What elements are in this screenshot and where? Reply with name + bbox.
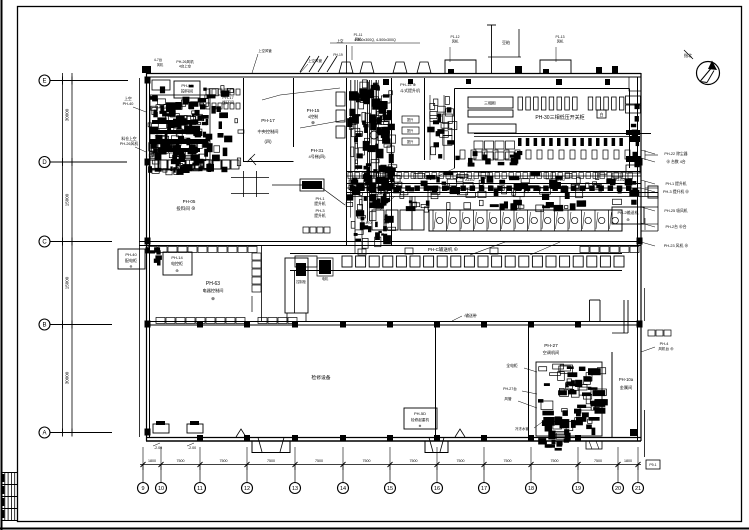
PH-63 cabinet strip [252, 253, 261, 260]
dense strip left wall [346, 78, 348, 245]
roof small rect 2 [612, 66, 618, 73]
strip roof stub line [346, 45, 348, 73]
C wall corner blocks [150, 250, 156, 253]
PH-30 small box [597, 110, 606, 118]
svg-text:检修设备: 检修设备 [311, 374, 330, 381]
top-left comb row 1 [206, 89, 210, 95]
wall x528 vertical [528, 325, 530, 437]
PH-27 below-wall cluster [552, 440, 556, 444]
room wall x243 [243, 78, 245, 162]
svg-text:7500: 7500 [551, 459, 559, 463]
svg-text:9: 9 [141, 486, 144, 492]
svg-text:4台上空: 4台上空 [179, 64, 192, 69]
svg-text:7500: 7500 [267, 459, 275, 463]
dense strip right wall [391, 78, 393, 245]
band connector lines [409, 196, 411, 210]
PH-30 panel comb row 1 [518, 97, 523, 110]
svg-text:7500: 7500 [220, 459, 228, 463]
svg-text:PH-27台: PH-27台 [503, 386, 517, 391]
gallery extra blocks [494, 189, 499, 196]
svg-text:检修起重机: 检修起重机 [411, 417, 429, 422]
room PH-17 bottom wall [244, 161, 294, 163]
svg-text:16: 16 [434, 486, 440, 492]
svg-text:-2.00: -2.00 [188, 446, 196, 450]
svg-text:7500: 7500 [177, 459, 185, 463]
lower-left black band [150, 139, 208, 144]
svg-text:12: 12 [244, 486, 250, 492]
PH-16 small boxed labels [402, 116, 419, 123]
corner stair block [630, 429, 637, 436]
svg-text:电器控制间: 电器控制间 [203, 287, 224, 294]
left dimension line 1 [62, 73, 64, 433]
top-left extra black [152, 120, 198, 124]
platform down leg [294, 271, 296, 313]
bucket elevator tower cluster [374, 83, 378, 87]
svg-text:30000: 30000 [65, 108, 70, 121]
svg-text:15: 15 [387, 486, 393, 492]
PH-30 cabinet box 3 [468, 124, 516, 133]
svg-text:电机: 电机 [322, 276, 329, 281]
platform legs to B wall [286, 313, 288, 322]
svg-text:19: 19 [575, 486, 581, 492]
left dimension line 2 [71, 73, 73, 433]
left column grid line [139, 78, 141, 437]
drawing sheet border [1, 0, 3, 530]
svg-text:15000: 15000 [65, 276, 70, 289]
svg-text:斗式提升机: 斗式提升机 [400, 87, 420, 93]
svg-text:C: C [42, 240, 47, 246]
silo drop line [491, 25, 493, 73]
wall x612 vertical [611, 352, 613, 437]
mezzanine tick row [511, 158, 519, 164]
svg-text:P9-1: P9-1 [649, 463, 656, 467]
room wall x424 [424, 78, 426, 160]
door mark left [236, 429, 246, 437]
room PH-30 outline [454, 89, 456, 169]
right short wall seg [644, 288, 646, 321]
wall C (horizontal) [139, 241, 641, 243]
building left wall [146, 73, 148, 441]
leader net 3 [430, 168, 455, 180]
svg-text:4控制: 4控制 [308, 113, 318, 119]
svg-text:PH-22 除尘器: PH-22 除尘器 [664, 151, 687, 156]
svg-text:冷冻水管: 冷冻水管 [515, 426, 529, 431]
PH-16 inner lines [429, 95, 431, 160]
feeder block [302, 181, 322, 189]
svg-text:⊕: ⊕ [175, 268, 178, 273]
svg-text:⊕: ⊕ [418, 424, 421, 428]
svg-text:料仓上空: 料仓上空 [121, 136, 136, 141]
PH-63 boxed label [163, 252, 192, 275]
svg-text:A⁠1302: A⁠1302 [615, 178, 625, 182]
room wall x293 [293, 78, 295, 147]
left dimension text 30000 [65, 108, 70, 121]
svg-text:PH-31: PH-31 [311, 148, 324, 153]
lower-left row extension [150, 160, 158, 169]
svg-text:P1-12: P1-12 [450, 35, 459, 39]
PH-12 side boxes [336, 92, 345, 106]
svg-text:P1-13: P1-13 [555, 35, 564, 39]
svg-text:PH-2台 ⊕台: PH-2台 ⊕台 [665, 224, 686, 229]
gallery comb row regular [348, 173, 353, 179]
svg-text:PH-27: PH-27 [544, 343, 558, 349]
right callout bracket 1 [645, 154, 658, 156]
svg-text:PH-3: PH-3 [315, 208, 325, 213]
svg-text:1800: 1800 [624, 459, 632, 463]
svg-text:PH-63: PH-63 [206, 281, 220, 287]
diagonal hatch cluster [300, 56, 310, 72]
svg-text:PH-26风机: PH-26风机 [176, 59, 194, 64]
svg-text:上空: 上空 [337, 38, 344, 43]
svg-text:风机: 风机 [355, 37, 362, 42]
grid line A with bubble [50, 432, 112, 434]
platform control box [296, 263, 306, 276]
conveyor PH-C row [290, 253, 622, 255]
svg-text:17: 17 [481, 486, 487, 492]
right wall inner blocks [633, 152, 638, 159]
svg-text:金属间: 金属间 [620, 384, 633, 391]
roof hood 1 [445, 60, 476, 73]
svg-text:4号梯(四): 4号梯(四) [309, 153, 327, 159]
right wall black rows [626, 130, 640, 135]
door vestibule 2 [425, 441, 448, 453]
PH-05 cross marks [243, 171, 245, 197]
left dimension text 15000 [65, 276, 70, 289]
lower-left block rows [150, 160, 158, 169]
PH-30 panel comb row 2 [518, 138, 522, 146]
svg-text:提升机: 提升机 [314, 201, 326, 206]
svg-text:⊕: ⊕ [211, 296, 215, 301]
roof small rect 1 [515, 66, 522, 73]
svg-text:PH-5D: PH-5D [414, 411, 426, 416]
feed line to elevator [272, 184, 302, 186]
svg-text:风机: 风机 [557, 39, 564, 44]
svg-text:PH-26风机: PH-26风机 [120, 141, 139, 146]
bottom grid bubbles [142, 465, 144, 483]
left dimension text 15000 [65, 193, 70, 206]
PH-30 lower tick row [460, 150, 465, 159]
svg-text:⊕: ⊕ [626, 217, 629, 222]
svg-text:提升: 提升 [407, 117, 414, 122]
storage room pit 2 [187, 424, 203, 433]
svg-text:上空风管: 上空风管 [308, 58, 322, 63]
right callout bracket 3 [645, 223, 658, 225]
mid band extra row [424, 207, 428, 212]
PH-30 cabinet box 2 [468, 110, 513, 117]
top-left comb row 2 [206, 103, 210, 109]
building right wall [637, 77, 639, 441]
svg-text:B: B [42, 323, 46, 329]
leader net 1 [280, 88, 340, 95]
left dimension text 30000 [65, 371, 70, 384]
svg-text:提升: 提升 [407, 139, 414, 144]
svg-text:风机台 ⊕: 风机台 ⊕ [658, 346, 674, 351]
svg-text:PH-19: PH-19 [333, 53, 343, 57]
conveyor PH-2 band [429, 210, 622, 231]
svg-text:全电柜: 全电柜 [506, 363, 518, 368]
platform rectangle [285, 258, 308, 313]
mezzanine edge line [474, 133, 651, 135]
svg-text:提升机: 提升机 [314, 213, 326, 218]
PH-30 lower boxes rows [474, 141, 483, 149]
right outside label PH-4 [648, 330, 655, 336]
building top wall [146, 73, 641, 75]
conveyor leaders [470, 242, 505, 255]
roof vent hoppers [339, 62, 353, 73]
svg-text:↑输送带: ↑输送带 [463, 313, 476, 318]
title block table [2, 472, 18, 474]
PH-5D boxed label [404, 408, 437, 429]
top-left fill extension [184, 126, 193, 133]
svg-text:风机: 风机 [157, 62, 164, 67]
building bottom wall [146, 437, 641, 439]
svg-text:A⁠1302: A⁠1302 [465, 178, 475, 182]
svg-text:风机: 风机 [452, 39, 459, 44]
svg-text:7500: 7500 [504, 459, 512, 463]
svg-text:A: A [42, 431, 46, 437]
door vestibule 1 [252, 441, 290, 453]
svg-text:7500: 7500 [410, 459, 418, 463]
svg-text:1800: 1800 [148, 459, 156, 463]
svg-text:-2.00: -2.00 [154, 446, 162, 450]
PH-2 conveyor label [612, 207, 644, 224]
svg-text:14: 14 [340, 486, 346, 492]
svg-text:电控柜: 电控柜 [171, 260, 183, 266]
svg-text:循环间: 循环间 [222, 99, 234, 105]
svg-text:(四): (四) [265, 139, 273, 144]
wall x435 vertical [435, 325, 437, 437]
leader net 2 [300, 120, 345, 128]
air handling unit cluster [559, 388, 564, 392]
svg-text:11: 11 [197, 486, 203, 492]
svg-text:PH-4: PH-4 [660, 342, 669, 346]
svg-text:21: 21 [635, 486, 641, 492]
right corner room rects [626, 96, 641, 104]
PH-2 conveyor hatches [434, 212, 436, 229]
svg-text:PH-30三相低压开关柜: PH-30三相低压开关柜 [535, 114, 584, 121]
top wall inner blocks [383, 79, 389, 85]
svg-text:7500: 7500 [594, 459, 602, 463]
B wall tick row 2 [258, 318, 267, 324]
motor block [319, 260, 331, 274]
svg-text:PH-23 风机 ⊕: PH-23 风机 ⊕ [664, 243, 688, 248]
PH-40 boxed label outside [118, 249, 145, 269]
C wall tick row right [580, 247, 589, 253]
PH-C label tick boxes [405, 248, 413, 254]
svg-text:15000: 15000 [65, 193, 70, 206]
svg-text:⊕ 台数 4台: ⊕ 台数 4台 [666, 159, 686, 164]
svg-text:PH-17: PH-17 [261, 118, 275, 124]
PH-30 cabinet box 1 [468, 97, 513, 108]
grid line E with bubble [50, 80, 128, 82]
wall B (horizontal) [146, 321, 592, 323]
grid line B with bubble [50, 324, 112, 326]
door mark right [455, 429, 465, 437]
svg-text:10: 10 [158, 486, 164, 492]
svg-text:PH-05: PH-05 [183, 199, 196, 204]
grid line C with bubble [50, 241, 112, 243]
svg-text:PH-14: PH-14 [171, 255, 183, 260]
PH-63 inner wall [261, 246, 263, 322]
storage room pit 1 [153, 424, 169, 433]
svg-text:7500: 7500 [457, 459, 465, 463]
svg-text:中央控制间: 中央控制间 [258, 128, 279, 135]
PH-05 small row [303, 227, 309, 233]
notch walls 2 [623, 300, 625, 333]
svg-text:30000: 30000 [65, 371, 70, 384]
strip extra black [381, 181, 389, 190]
svg-text:⊕: ⊕ [130, 265, 133, 269]
band1 solid row [350, 186, 356, 192]
svg-text:PH-25 吸风机: PH-25 吸风机 [664, 208, 687, 213]
C wall tick row left [148, 247, 157, 253]
svg-text:18: 18 [528, 486, 534, 492]
svg-text:上空风管: 上空风管 [258, 48, 272, 53]
svg-text:P1-11: P1-11 [354, 33, 363, 37]
svg-text:PH-15: PH-15 [307, 108, 320, 113]
svg-text:投料间: 投料间 [181, 88, 193, 94]
svg-text:4-7台: 4-7台 [154, 57, 163, 62]
svg-text:空调机间: 空调机间 [543, 349, 560, 356]
svg-text:E: E [42, 79, 46, 85]
right callout bracket 2 [645, 187, 658, 189]
svg-text:白: 白 [600, 111, 604, 117]
door hatch right [586, 441, 602, 449]
svg-text:PH-40: PH-40 [125, 252, 137, 257]
svg-text:PH-10a: PH-10a [619, 377, 634, 382]
PH-17 room door [247, 154, 255, 162]
room PH-14 label box [174, 81, 200, 98]
AHU extra blocks [577, 405, 586, 408]
band connector extra [519, 196, 521, 210]
svg-text:⊕: ⊕ [311, 120, 315, 125]
right gallery stub [641, 206, 658, 208]
svg-text:PH-3 提升机 ⊕: PH-3 提升机 ⊕ [663, 189, 689, 194]
PH-16 inner machinery [430, 103, 435, 109]
svg-text:配电柜: 配电柜 [125, 257, 137, 263]
svg-text:提升: 提升 [407, 128, 414, 133]
svg-text:上空: 上空 [124, 96, 132, 101]
svg-text:20: 20 [615, 486, 621, 492]
top-left machinery block [152, 80, 170, 90]
svg-text:投料间 ⊕: 投料间 ⊕ [176, 205, 195, 212]
svg-text:风管: 风管 [504, 396, 512, 401]
north arrow symbol [697, 62, 720, 85]
svg-text:PH-1: PH-1 [315, 196, 325, 201]
structural columns [145, 77, 151, 84]
notch walls above B [589, 300, 591, 322]
leader from feeder [322, 188, 345, 205]
svg-text:PH-1 提升机: PH-1 提升机 [665, 181, 686, 186]
svg-text:豆粕: 豆粕 [502, 39, 510, 45]
bottom dimension line [140, 464, 641, 466]
grid line D with bubble [50, 161, 127, 163]
wall B extension right [592, 321, 641, 323]
roof hood 2 [540, 60, 571, 73]
svg-text:13: 13 [292, 486, 298, 492]
svg-text:7500: 7500 [315, 459, 323, 463]
svg-text:PH-C输送机 ⊕: PH-C输送机 ⊕ [428, 246, 458, 253]
svg-text:PH-40: PH-40 [123, 102, 134, 106]
B wall tick row 1 [156, 318, 165, 324]
svg-text:三相柜: 三相柜 [484, 100, 496, 106]
leader net 4 [530, 242, 560, 255]
svg-text:PH-2输送机: PH-2输送机 [617, 209, 638, 215]
svg-text:D: D [42, 160, 47, 166]
svg-text:7500: 7500 [363, 459, 371, 463]
svg-text:控制柜: 控制柜 [296, 279, 306, 284]
conveyor gallery band 1 [346, 171, 641, 173]
